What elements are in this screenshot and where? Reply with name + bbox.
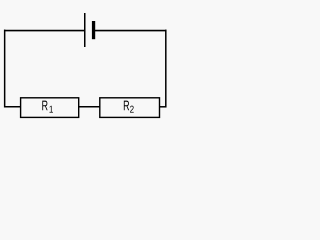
label R1 [42, 101, 53, 113]
wire: top left segment [4, 30, 85, 32]
wire: right vertical [165, 30, 167, 108]
battery cell [85, 13, 94, 47]
wire: left vertical [4, 30, 6, 108]
wire: top right segment [94, 30, 167, 32]
wire: bottom left segment [4, 106, 21, 108]
wire: bottom middle segment [79, 106, 101, 108]
resistor R1 [21, 98, 79, 118]
resistor R2 [100, 98, 160, 118]
wire: bottom right segment [159, 106, 167, 108]
label R2 [124, 101, 134, 113]
